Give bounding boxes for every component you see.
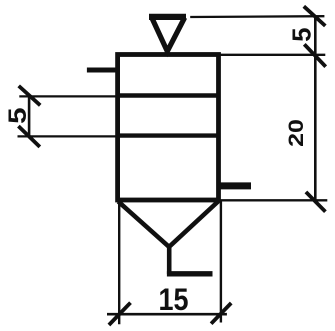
tick bottom dim right xyxy=(211,303,231,324)
bottom cone right side xyxy=(169,201,218,247)
tick right dim bottom xyxy=(306,192,326,212)
svg-text:20: 20 xyxy=(284,119,308,147)
bottom outlet horizontal stub xyxy=(167,271,213,276)
top funnel inverted triangle sides xyxy=(152,18,185,52)
bottom dimension line xyxy=(107,313,227,316)
tick bottom dim left xyxy=(109,303,131,325)
vessel body rectangle xyxy=(118,55,219,201)
extension line from funnel top to right xyxy=(190,15,324,18)
tray line 2 xyxy=(118,133,219,137)
bottom extension line right xyxy=(220,202,222,323)
bottom cone left side xyxy=(118,202,169,247)
tick right dim middle xyxy=(304,44,325,66)
top funnel inverted triangle bar xyxy=(149,14,186,20)
left extension line 2 xyxy=(18,135,118,137)
tray line 1 xyxy=(118,93,219,97)
bottom extension line left xyxy=(118,203,120,325)
extension line from body bottom to right xyxy=(220,199,327,201)
left dimension line xyxy=(28,96,31,136)
outlet stub xyxy=(219,182,252,189)
left extension line 1 xyxy=(19,95,117,97)
tick right dim top xyxy=(304,6,326,26)
svg-text:5: 5 xyxy=(288,28,316,42)
right dimension line xyxy=(314,16,317,202)
svg-text:5: 5 xyxy=(3,107,31,123)
svg-text:15: 15 xyxy=(159,281,189,317)
bottom outlet vertical stub xyxy=(167,245,172,275)
tick left dim top xyxy=(19,86,41,105)
tick left dim bottom xyxy=(18,126,39,147)
inlet stub xyxy=(87,68,118,73)
extension line from body top edge to right xyxy=(220,54,325,56)
